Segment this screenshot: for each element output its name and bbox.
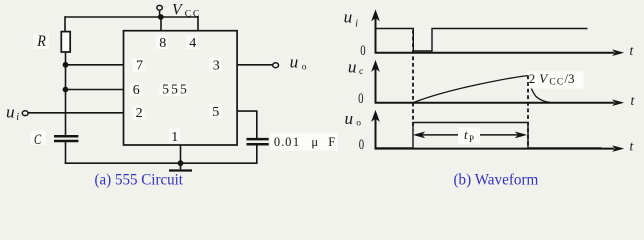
label t uo <box>630 139 635 154</box>
label t ui <box>630 43 635 58</box>
svg-text:u: u <box>290 53 299 72</box>
label uc axis <box>348 58 363 78</box>
ground symbol <box>169 163 192 170</box>
svg-text:c: c <box>359 67 363 77</box>
pin label 4 <box>186 35 198 51</box>
svg-text:1: 1 <box>171 130 178 145</box>
terminal ui open circle <box>22 111 28 116</box>
capacitor 0.01uF <box>247 139 269 144</box>
wire pin 5 to cap <box>237 111 257 139</box>
svg-text:R: R <box>36 33 46 50</box>
svg-text:i: i <box>16 112 19 123</box>
svg-text:5: 5 <box>212 105 219 120</box>
label C <box>30 131 46 148</box>
svg-text:C: C <box>34 132 42 148</box>
axis uo horizontal <box>375 146 624 152</box>
label 0.01uF <box>271 134 338 151</box>
resistor R <box>61 32 70 52</box>
label ui axis <box>344 8 359 30</box>
wire bottom rail <box>65 162 257 164</box>
svg-text:.: . <box>281 135 284 149</box>
IC 555 box <box>124 31 238 145</box>
svg-text:u: u <box>345 109 354 128</box>
caption (b) Waveform <box>454 171 539 188</box>
wire pin 4 drop <box>197 16 199 31</box>
wire pin 6 <box>66 89 124 91</box>
label uo <box>290 53 307 73</box>
svg-text:(b) Waveform: (b) Waveform <box>454 171 539 188</box>
svg-text:u: u <box>348 58 357 77</box>
pin label 1 <box>169 129 180 145</box>
svg-text:555: 555 <box>162 82 189 97</box>
wire resistor bottom down to capacitor C <box>65 52 67 136</box>
wire pin 3 output <box>237 64 273 66</box>
junction dot pin6 <box>63 87 69 93</box>
svg-text:(a) 555 Circuit: (a) 555 Circuit <box>95 171 184 188</box>
waveform uo pulse <box>377 123 602 149</box>
arrow tP double headed <box>414 132 527 138</box>
label 555 <box>160 82 189 97</box>
label t uc <box>631 93 636 108</box>
wire pin 8 stub <box>160 17 162 31</box>
wire capacitor bottom to rail <box>65 141 67 163</box>
label tP <box>458 127 480 144</box>
svg-text:8: 8 <box>159 36 166 51</box>
junction dot ground <box>178 160 184 166</box>
svg-text:F: F <box>328 135 335 149</box>
svg-text:P: P <box>469 134 474 144</box>
svg-text:2: 2 <box>529 71 536 86</box>
svg-text:4: 4 <box>189 36 196 51</box>
svg-text:μ: μ <box>311 135 318 149</box>
pin label 8 <box>156 35 168 51</box>
junction VCC dot <box>158 14 164 20</box>
svg-text:u: u <box>344 8 353 27</box>
label 2VCC/3 <box>528 71 584 89</box>
label VCC <box>172 1 201 19</box>
terminal uo open circle <box>273 63 279 68</box>
svg-text:CC: CC <box>549 78 564 88</box>
svg-text:0: 0 <box>358 91 363 107</box>
svg-text:1: 1 <box>293 135 299 149</box>
terminal VCC open circle <box>157 5 162 17</box>
wire pin 1 to ground <box>180 145 182 163</box>
pin label 3 <box>210 58 222 74</box>
axis uc vertical <box>372 61 379 104</box>
axis ui vertical <box>372 10 379 53</box>
svg-text:7: 7 <box>136 59 143 74</box>
label ui input <box>6 103 19 124</box>
pin label 2 <box>133 106 145 122</box>
wire pin 7 <box>66 64 124 66</box>
svg-text:CC: CC <box>185 8 201 19</box>
pin label 5 <box>210 105 222 121</box>
svg-text:o: o <box>302 63 307 73</box>
axis ui horizontal <box>375 50 624 56</box>
svg-text:0: 0 <box>359 137 364 153</box>
caption (a) 555 Circuit <box>95 171 184 188</box>
waveform ui <box>377 29 588 52</box>
wire rail down to resistor top <box>64 16 66 31</box>
svg-text:3: 3 <box>213 59 220 74</box>
pin label 7 <box>133 58 145 74</box>
label R <box>33 33 49 50</box>
wire cap2 bottom to rail <box>256 144 258 164</box>
dashed line t1 <box>412 30 414 126</box>
axis uo vertical <box>372 111 379 150</box>
svg-text:i: i <box>355 19 358 30</box>
svg-text:0: 0 <box>274 135 280 149</box>
label uo axis <box>345 109 362 128</box>
svg-text:2: 2 <box>136 106 143 121</box>
svg-text:u: u <box>6 103 15 122</box>
junction dot pin7 <box>63 62 69 68</box>
svg-text:/3: /3 <box>564 71 574 86</box>
svg-text:0: 0 <box>360 43 365 59</box>
wire top rail VCC <box>65 16 198 18</box>
label 0 uc <box>358 91 363 107</box>
axis uc horizontal <box>375 100 624 106</box>
wire pin 2 from ui terminal <box>28 112 123 114</box>
waveform uc charge and discharge curve <box>414 76 551 103</box>
svg-text:6: 6 <box>133 83 140 98</box>
svg-text:t: t <box>464 127 468 142</box>
capacitor C <box>54 136 78 141</box>
svg-text:o: o <box>356 119 361 129</box>
label 0 ui <box>360 43 365 59</box>
svg-text:0: 0 <box>285 135 291 149</box>
pin label 6 <box>130 83 142 98</box>
label 0 uo <box>359 137 364 153</box>
dashed line t2 <box>527 76 529 149</box>
